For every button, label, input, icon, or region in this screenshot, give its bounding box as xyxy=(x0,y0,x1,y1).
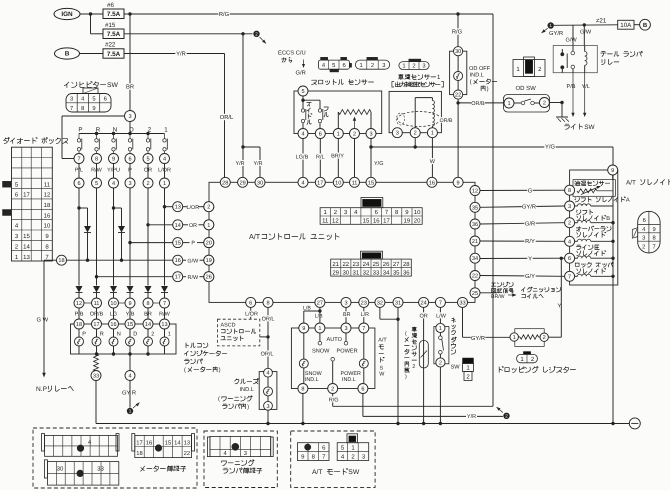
svg-text:4: 4 xyxy=(163,157,166,163)
svg-text:7.5A: 7.5A xyxy=(107,31,121,38)
svg-text:G W: G W xyxy=(37,317,49,324)
svg-text:11: 11 xyxy=(44,181,51,188)
svg-text:6: 6 xyxy=(128,157,131,163)
svg-text:7: 7 xyxy=(652,244,655,250)
svg-text:29: 29 xyxy=(332,269,339,276)
fuse #22 7.5A xyxy=(103,42,124,59)
wire meter pin 33 to ground bus xyxy=(96,381,268,424)
fuse 10A xyxy=(618,20,634,29)
cruise IND.L labels xyxy=(218,379,259,411)
svg-text:G/W: G/W xyxy=(566,36,578,43)
svg-text:SNOW: SNOW xyxy=(312,348,330,354)
wires throttle sensor to control unit xyxy=(303,139,371,178)
svg-text:1: 1 xyxy=(431,131,434,137)
kickdown SW label (vertical) xyxy=(451,318,461,371)
svg-text:6: 6 xyxy=(104,96,107,103)
svg-text:N: N xyxy=(117,332,121,338)
svg-text:Y/R: Y/R xyxy=(467,414,476,420)
meter terminal strip A xyxy=(42,434,120,457)
cruise indicator lamp xyxy=(264,377,273,401)
svg-text:35: 35 xyxy=(393,269,400,276)
harness pin 18 (P/N output) xyxy=(57,255,67,265)
svg-text:2: 2 xyxy=(412,364,415,370)
wire L/B pin 27 to mode switch xyxy=(303,305,323,323)
svg-text:≠21: ≠21 xyxy=(596,18,607,25)
svg-text:15: 15 xyxy=(175,241,181,247)
svg-text:IGN: IGN xyxy=(61,11,73,18)
svg-text:W: W xyxy=(430,159,436,165)
svg-text:Y/G: Y/G xyxy=(545,144,555,151)
svg-text:11: 11 xyxy=(352,180,358,186)
wire G/W feed to relay xyxy=(554,23,618,45)
svg-text:P: P xyxy=(191,241,195,247)
svg-text:14: 14 xyxy=(145,322,151,328)
wire G/W pin 18 to N.P relay xyxy=(42,260,56,377)
A/T solenoid box xyxy=(570,170,618,285)
svg-text:36: 36 xyxy=(472,222,478,228)
tail lamp relay label xyxy=(601,51,643,64)
svg-text:33: 33 xyxy=(459,300,465,306)
svg-text:2: 2 xyxy=(331,387,334,393)
svg-text:12: 12 xyxy=(44,192,51,199)
svg-text:3: 3 xyxy=(642,234,645,241)
svg-text:3: 3 xyxy=(422,62,425,69)
ground bus wire xyxy=(266,422,629,425)
A/T mode SW terminal table R with key tab xyxy=(337,434,369,461)
throttle sensor idle/full contacts xyxy=(301,96,323,129)
svg-text:27: 27 xyxy=(393,261,400,268)
svg-text:4: 4 xyxy=(568,239,571,245)
speed sensor 1 pins 3 2 1 xyxy=(392,128,437,138)
svg-text:GY R: GY R xyxy=(122,390,136,397)
svg-text:POWER: POWER xyxy=(341,371,361,377)
svg-text:9: 9 xyxy=(302,326,305,332)
svg-text:9: 9 xyxy=(92,105,95,112)
inhibitor switch title xyxy=(64,82,118,90)
OD OFF indicator lamp xyxy=(454,56,463,90)
wire label G/W (contact) xyxy=(566,36,578,43)
svg-text:ECCS C/U: ECCS C/U xyxy=(278,50,306,57)
wire R column down, branch to pin 17 xyxy=(95,188,173,286)
svg-text:3: 3 xyxy=(70,96,73,103)
svg-text:7: 7 xyxy=(70,106,73,112)
svg-text:1: 1 xyxy=(402,63,405,69)
cruise indicator box xyxy=(259,372,277,410)
svg-text:IND.L: IND.L xyxy=(240,387,254,393)
wires inhibitor pins to harness pins xyxy=(79,164,165,179)
svg-text:3: 3 xyxy=(344,326,347,332)
label idle (vertical) xyxy=(307,103,312,125)
svg-text:G/R: G/R xyxy=(525,220,535,227)
svg-text:P: P xyxy=(78,126,82,133)
svg-text:13: 13 xyxy=(23,254,30,261)
svg-text:9: 9 xyxy=(457,180,460,186)
svg-text:23: 23 xyxy=(361,300,367,306)
harness connector pins 17-26 with wire R/W xyxy=(173,272,214,282)
svg-text:6: 6 xyxy=(643,217,646,224)
speed sensor 1 connector face 1 2 3 xyxy=(399,59,429,70)
svg-text:15: 15 xyxy=(368,180,374,186)
label to N.P relay xyxy=(36,386,73,393)
svg-text:Y/R: Y/R xyxy=(236,161,245,167)
wire L/OR pin 6 to ASCD unit xyxy=(245,307,259,319)
svg-text:30: 30 xyxy=(342,269,349,276)
svg-text:6: 6 xyxy=(342,62,345,69)
svg-text:ASCD: ASCD xyxy=(221,322,236,328)
svg-text:12: 12 xyxy=(76,301,82,307)
svg-text:10: 10 xyxy=(414,209,421,216)
dropping resistor xyxy=(510,329,548,347)
control unit connector table pins 1-20 xyxy=(320,208,422,225)
wire R/Y pin 21 to overrun solenoid xyxy=(480,238,565,245)
overrun solenoid label xyxy=(576,226,611,237)
harness connector pins 14-1 with wire OR xyxy=(173,220,214,230)
svg-text:4: 4 xyxy=(128,374,131,380)
diode box terminal table xyxy=(12,147,53,261)
diodes to torque converter indicator lamps xyxy=(76,286,169,298)
svg-text:BR/W: BR/W xyxy=(491,294,505,300)
svg-text:R/Y: R/Y xyxy=(525,238,535,245)
svg-text:BR: BR xyxy=(343,312,351,318)
svg-text:4: 4 xyxy=(112,181,115,187)
kickdown SW connector face 1 2 xyxy=(463,358,474,381)
svg-text:3: 3 xyxy=(128,181,131,187)
wire pin 8 to ground bus xyxy=(302,394,304,424)
svg-text:28: 28 xyxy=(403,261,410,268)
svg-text:34: 34 xyxy=(472,256,478,262)
OD SW label xyxy=(516,85,537,92)
svg-text:20: 20 xyxy=(206,241,212,247)
svg-text:10: 10 xyxy=(44,223,51,230)
svg-text:8: 8 xyxy=(81,105,84,112)
warning lamp terminal dashed box xyxy=(204,431,277,488)
svg-text:3: 3 xyxy=(128,114,131,120)
svg-text:2: 2 xyxy=(439,361,442,367)
lamp common bus xyxy=(95,352,150,355)
wire label G/W (coil) xyxy=(580,29,592,36)
inhibitor switch connector face 3456/789 xyxy=(66,88,111,112)
speed sensor 1 box xyxy=(389,91,441,132)
wire 2 column down, branch to pin 14 xyxy=(146,188,172,286)
control unit top pins 16 9 xyxy=(427,177,463,187)
wire Y/R fuse #22 to control unit pin 28 xyxy=(124,54,225,178)
svg-text:L/R: L/R xyxy=(361,312,369,318)
wire OD OFF indicator to control unit pin 9 xyxy=(439,99,459,177)
svg-text:Y: Y xyxy=(528,256,532,262)
connector table 1 black key tab xyxy=(361,198,383,208)
svg-text:13: 13 xyxy=(161,322,167,328)
svg-text:L/W: L/W xyxy=(436,313,447,319)
svg-text:8: 8 xyxy=(568,188,571,194)
svg-text:6: 6 xyxy=(568,256,571,262)
svg-text:8: 8 xyxy=(301,387,304,393)
control unit bottom pins 6 8 27 3 23 32 31 24 7 33 xyxy=(246,297,468,307)
warning lamp terminal strip xyxy=(207,436,273,457)
svg-text:16: 16 xyxy=(175,258,181,264)
svg-text:2: 2 xyxy=(414,131,417,137)
svg-text:2: 2 xyxy=(505,414,508,419)
svg-text:B: B xyxy=(643,22,648,29)
wire kickdown SW to ground bus xyxy=(439,367,441,423)
svg-text:8: 8 xyxy=(146,301,149,307)
svg-text:30: 30 xyxy=(455,49,461,55)
OD OFF IND.L label xyxy=(469,66,497,92)
throttle sensor connector face 1 2 3 xyxy=(355,57,389,69)
line pressure solenoid xyxy=(565,253,615,263)
meter harness pins 12 11 10 9 8 7 xyxy=(74,298,170,308)
inhibitor SW pin 3 (common) xyxy=(125,111,136,122)
svg-text:OD SW: OD SW xyxy=(516,85,537,92)
svg-text:#15: #15 xyxy=(105,22,116,29)
diode P-N.P relay branch xyxy=(84,226,91,233)
svg-text:12: 12 xyxy=(332,218,339,225)
connector table 2 black key tab xyxy=(361,251,383,259)
svg-text:GY/R: GY/R xyxy=(471,335,485,342)
wire labels P/L R/W Y/PU P OR L/OR xyxy=(75,168,171,174)
svg-text:26: 26 xyxy=(206,275,212,281)
svg-text:1: 1 xyxy=(513,335,516,341)
svg-text:5: 5 xyxy=(301,89,304,95)
A/T mode SW terminal table L xyxy=(298,443,330,461)
svg-text:18: 18 xyxy=(76,322,82,328)
control unit left pins 2 1 20 19 26 xyxy=(204,202,214,282)
meter pin 4 (illumination feed) xyxy=(125,354,135,381)
harness pins 6 5 4 3 2 1 xyxy=(74,178,170,188)
inhibitor SW contacts xyxy=(77,134,167,154)
svg-text:SNOW: SNOW xyxy=(305,371,323,377)
svg-text:2: 2 xyxy=(568,221,571,227)
svg-text:): ) xyxy=(247,403,249,410)
meter side terminal dashed box xyxy=(33,428,197,488)
shift solenoid B xyxy=(565,218,615,228)
lock-up solenoid label xyxy=(575,262,613,273)
svg-text:14: 14 xyxy=(175,223,181,229)
svg-text:IND.L: IND.L xyxy=(342,377,356,383)
solenoid assembly pin 9 xyxy=(608,165,618,175)
svg-text:5: 5 xyxy=(95,181,98,187)
inhibitor SW position labels P R N D 2 1 xyxy=(78,126,168,133)
svg-text:2: 2 xyxy=(543,101,546,107)
dropping resistor label xyxy=(499,367,575,373)
wire OD SW to ground xyxy=(549,101,563,117)
svg-text:3: 3 xyxy=(382,62,385,69)
meter side terminal label xyxy=(141,466,186,471)
wire label R/G xyxy=(218,11,229,17)
cruise indicator pin 3 xyxy=(264,401,273,410)
svg-text:AUTO: AUTO xyxy=(327,337,343,343)
diode N-N.P relay branch xyxy=(118,226,125,233)
svg-text:SW: SW xyxy=(584,124,595,131)
svg-text:23: 23 xyxy=(353,261,360,268)
svg-text:1: 1 xyxy=(129,409,132,414)
svg-text:10: 10 xyxy=(335,180,341,186)
svg-text:L/OR: L/OR xyxy=(187,205,200,211)
svg-text:22: 22 xyxy=(184,450,190,457)
svg-text:OR: OR xyxy=(189,223,197,229)
svg-text:17: 17 xyxy=(93,322,99,328)
svg-text:10A: 10A xyxy=(620,22,632,29)
meter pin 33 (illumination) xyxy=(91,371,101,381)
ground symbol (OD SW) xyxy=(556,117,569,122)
svg-text:20: 20 xyxy=(414,218,421,225)
wire labels LG/B R/L BR/Y xyxy=(295,153,344,161)
svg-text:L/B: L/B xyxy=(303,305,311,311)
svg-text:19: 19 xyxy=(206,258,212,264)
svg-text:30: 30 xyxy=(57,466,64,473)
svg-text:4: 4 xyxy=(266,371,269,377)
diode box title xyxy=(4,138,68,144)
svg-text:OR/B: OR/B xyxy=(471,101,485,107)
A/T solenoid connector face xyxy=(632,211,660,253)
svg-text:17: 17 xyxy=(383,218,390,225)
A/T control unit label xyxy=(249,232,339,241)
svg-text:3: 3 xyxy=(266,404,269,410)
lock-up solenoid xyxy=(565,271,615,281)
svg-text:2: 2 xyxy=(353,132,356,138)
svg-text:Y/L: Y/L xyxy=(582,83,590,90)
warning lamp terminal label xyxy=(222,460,262,473)
wire GY/R pin 33 to dropping resistor xyxy=(463,307,511,342)
svg-text:7: 7 xyxy=(77,157,80,163)
svg-text:8: 8 xyxy=(266,300,269,306)
wire R/G mode switch pin 2 to fuse #6 feed xyxy=(328,394,493,407)
svg-text:1: 1 xyxy=(439,326,442,332)
svg-text:4: 4 xyxy=(301,132,304,138)
diode box black key tabs xyxy=(3,181,11,215)
speed sensor 2 label (vertical) xyxy=(405,327,417,380)
svg-text:21: 21 xyxy=(472,239,478,245)
svg-text:P: P xyxy=(82,332,86,338)
svg-text:D: D xyxy=(133,332,137,338)
wire label Y/R (pin29) xyxy=(235,160,246,166)
wire G/R pin 36 to shift solenoid B xyxy=(480,220,565,227)
svg-text:9: 9 xyxy=(611,168,614,174)
wire B to fuse #22 xyxy=(80,53,104,55)
splice marker 2 (top) xyxy=(253,31,266,44)
svg-text:4: 4 xyxy=(301,180,304,186)
svg-text:33: 33 xyxy=(373,269,380,276)
svg-text:18: 18 xyxy=(58,258,64,264)
wire OR pin 24 through speed sensor 2 to ground bus xyxy=(419,307,427,423)
speed sensor 1 pickup coil xyxy=(397,98,441,128)
throttle sensor pins 4 6 1 2 3 xyxy=(298,129,376,139)
svg-text:R/G: R/G xyxy=(219,11,230,18)
svg-text:17: 17 xyxy=(175,275,181,281)
svg-text:2: 2 xyxy=(151,332,154,338)
svg-text:A/T: A/T xyxy=(312,469,323,476)
svg-text:33: 33 xyxy=(93,374,99,380)
fuse #15 7.5A xyxy=(103,22,124,39)
svg-text:9: 9 xyxy=(128,301,131,307)
arrow G/R from ECCS xyxy=(296,60,306,77)
svg-text:18: 18 xyxy=(44,202,51,209)
svg-text:IND.L: IND.L xyxy=(305,377,319,383)
lamp unit pins 18 17 16 15 14 13 xyxy=(74,308,170,329)
svg-text:11: 11 xyxy=(94,301,100,307)
svg-text:35: 35 xyxy=(472,205,478,211)
svg-text:R/W: R/W xyxy=(188,275,199,281)
svg-text:2: 2 xyxy=(207,205,210,211)
svg-text:1: 1 xyxy=(164,126,168,133)
svg-text:OD OFF: OD OFF xyxy=(469,66,491,72)
svg-text:7: 7 xyxy=(568,274,571,280)
svg-text:25: 25 xyxy=(472,291,478,297)
svg-text:12: 12 xyxy=(472,189,478,195)
speed sensor 1 title xyxy=(392,74,444,87)
wire pin 32 joins pin 31 to ground bus xyxy=(380,307,400,423)
svg-text:SW: SW xyxy=(107,82,119,89)
svg-text:3: 3 xyxy=(244,450,247,457)
svg-text:G: G xyxy=(528,187,533,194)
svg-text:OR: OR xyxy=(419,313,427,319)
tail lamp relay box xyxy=(553,46,597,73)
lamp box label (meter) xyxy=(184,343,227,374)
svg-text:17: 17 xyxy=(23,192,30,199)
svg-text:G/Y: G/Y xyxy=(525,273,535,280)
throttle sensor pin 5 xyxy=(298,86,308,96)
harness connector pins 15-20 with wire P xyxy=(173,238,214,248)
svg-text:24: 24 xyxy=(420,300,426,306)
oil temp sensor xyxy=(573,175,615,196)
svg-text:R/G: R/G xyxy=(452,29,463,36)
svg-text:SW: SW xyxy=(348,469,360,476)
wire BR pin 3 to mode switch xyxy=(343,307,351,323)
svg-text:28: 28 xyxy=(222,180,228,186)
svg-text:A/T: A/T xyxy=(378,338,387,344)
splice marker 1 (bottom) xyxy=(127,403,140,415)
A/T control unit box xyxy=(209,182,475,302)
svg-text:7.5A: 7.5A xyxy=(107,11,121,18)
svg-text:R: R xyxy=(96,126,101,133)
A/T mode switch box xyxy=(291,328,375,389)
svg-text:14: 14 xyxy=(23,243,30,250)
svg-text:R/G: R/G xyxy=(329,397,339,403)
svg-text:1: 1 xyxy=(318,326,321,332)
svg-text:BR: BR xyxy=(126,85,134,91)
OD OFF indicator pin 22 xyxy=(454,90,463,99)
svg-text:6: 6 xyxy=(361,387,364,393)
wire BR/W engine speed signal to ignition coil xyxy=(480,282,561,300)
svg-text:B: B xyxy=(65,51,70,58)
A/T mode SW side label (vertical) xyxy=(378,338,387,378)
ECCS C/U reference label xyxy=(278,50,306,63)
wire label Y/R xyxy=(175,50,186,56)
svg-text:1: 1 xyxy=(168,332,171,338)
svg-text:34: 34 xyxy=(383,269,390,276)
svg-text:2: 2 xyxy=(148,126,152,133)
meter terminal strip C (17 16 15 14 13 / 18 22) xyxy=(132,434,195,458)
svg-text:15: 15 xyxy=(165,440,171,446)
svg-text:G/W: G/W xyxy=(580,29,592,36)
svg-text:Y/R: Y/R xyxy=(176,51,186,58)
splice marker 2 (bottom) xyxy=(497,407,510,419)
svg-text:8: 8 xyxy=(652,234,655,241)
svg-text:30: 30 xyxy=(257,180,263,186)
svg-text:OR/L: OR/L xyxy=(261,351,274,357)
wire BR fuse #6 junction down to inhibitor SW pin 3 xyxy=(129,14,131,111)
svg-text:3: 3 xyxy=(568,204,571,210)
svg-text:22: 22 xyxy=(342,261,349,268)
control unit connector table pins 21-36 xyxy=(331,259,412,276)
cruise indicator pin 4 xyxy=(264,368,273,377)
svg-text:OR/L: OR/L xyxy=(220,114,234,121)
overrun solenoid xyxy=(565,236,615,246)
wires P/B Y/L to light SW xyxy=(567,73,590,117)
svg-text:32: 32 xyxy=(363,269,370,276)
svg-text:33: 33 xyxy=(97,466,104,473)
svg-text:1: 1 xyxy=(337,132,340,138)
svg-text:2: 2 xyxy=(412,62,415,69)
